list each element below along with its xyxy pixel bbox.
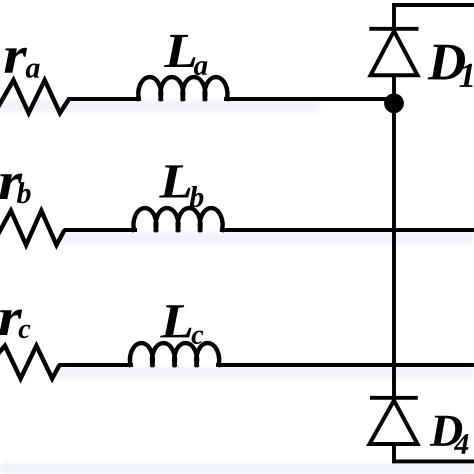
wire phase b right <box>220 228 474 232</box>
label D_4 <box>430 416 462 446</box>
label r_a <box>4 48 27 73</box>
label D_1 <box>428 45 465 80</box>
wire phase c left <box>59 363 134 367</box>
inductor Lb <box>134 208 223 232</box>
resistor rc <box>0 346 60 379</box>
node junction dot <box>384 93 404 113</box>
diode D1 <box>371 31 418 75</box>
wash under phase wires <box>0 101 474 474</box>
wire bus middle <box>392 103 396 398</box>
label r_c <box>0 310 22 335</box>
diode D1 cathode bar <box>369 27 418 31</box>
inductor La <box>138 77 227 101</box>
label L_a <box>164 35 195 67</box>
wire phase a right <box>224 97 392 101</box>
label D_1 subscript 1 <box>459 64 472 87</box>
label L_c subscript c <box>192 331 204 345</box>
resistor rb <box>0 211 65 245</box>
wire phase c right <box>216 363 474 367</box>
wire phase a left <box>68 97 142 101</box>
wire phase b left <box>64 228 138 232</box>
label r_a subscript a <box>26 64 40 78</box>
label L_c <box>160 305 191 337</box>
label r_b <box>0 174 22 199</box>
label r_b subscript b <box>17 182 31 203</box>
blur filter <box>0 0 1 1</box>
diode D4 cathode bar <box>370 396 418 400</box>
wire top <box>394 5 474 31</box>
inductor Lc <box>130 343 219 367</box>
label L_b <box>159 165 190 197</box>
resistor ra <box>0 80 69 113</box>
diode D4 <box>370 401 418 445</box>
label D_4 subscript 4 <box>454 434 469 454</box>
wire bus upper <box>392 75 396 103</box>
wire bottom <box>394 444 474 461</box>
label L_a subscript a <box>194 61 208 75</box>
label r_c subscript c <box>19 325 31 339</box>
label L_b subscript b <box>190 186 204 207</box>
